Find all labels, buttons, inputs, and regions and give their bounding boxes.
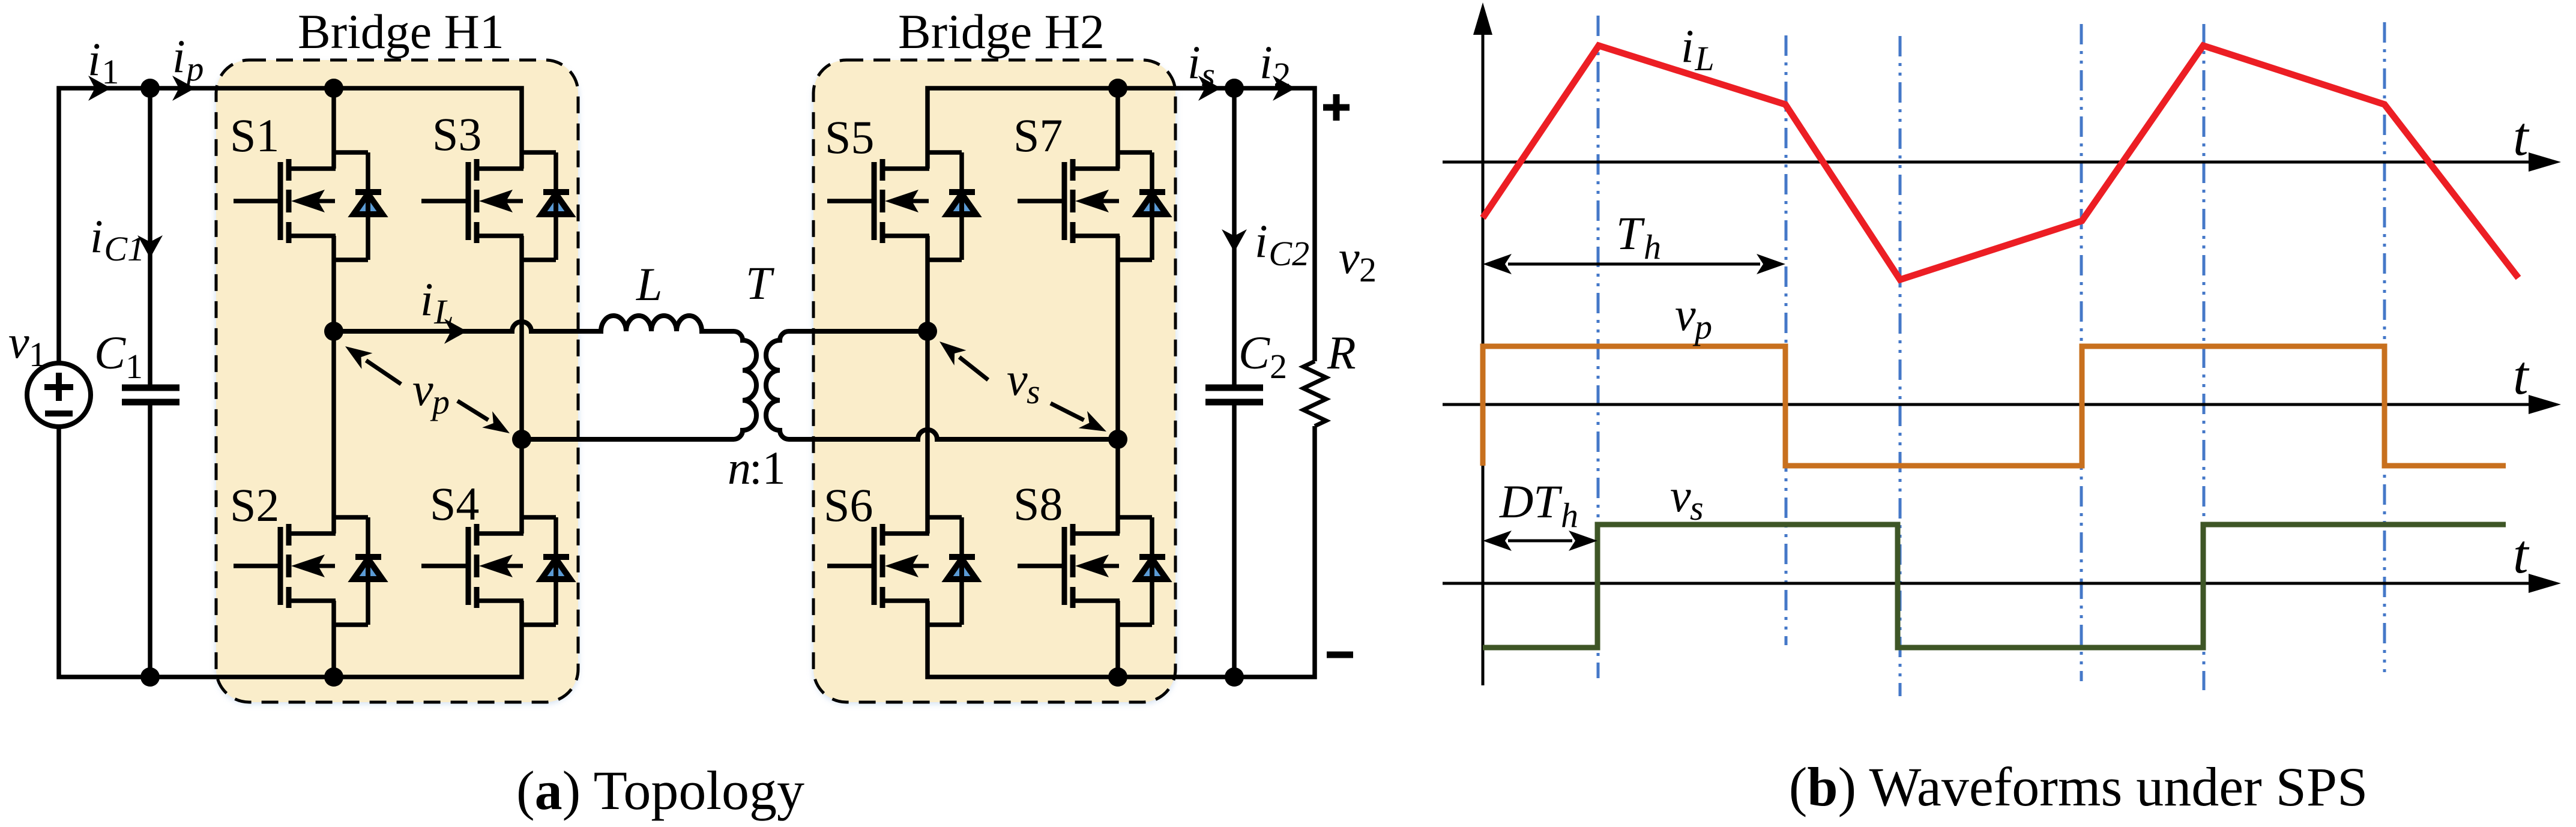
svg-text:S6: S6 — [824, 479, 873, 531]
svg-text:T: T — [746, 257, 774, 309]
svg-text:v: v — [1675, 288, 1696, 340]
svg-text:t: t — [2513, 523, 2530, 585]
svg-text:p: p — [430, 382, 450, 421]
svg-text:i: i — [90, 210, 103, 262]
svg-text:v: v — [412, 363, 433, 415]
svg-text:s: s — [1201, 55, 1215, 94]
svg-text:s: s — [1690, 489, 1704, 528]
svg-text:i: i — [88, 33, 101, 85]
svg-text:Bridge H2: Bridge H2 — [898, 4, 1105, 59]
svg-text:S3: S3 — [432, 108, 481, 160]
svg-text:L: L — [636, 258, 662, 310]
svg-text:i: i — [1255, 215, 1268, 267]
svg-text:S1: S1 — [230, 109, 279, 161]
svg-text:v: v — [1339, 231, 1360, 283]
svg-text:2: 2 — [1273, 55, 1291, 94]
svg-text:C: C — [94, 326, 126, 379]
svg-text:i: i — [1259, 36, 1273, 88]
svg-text:R: R — [1327, 326, 1356, 379]
svg-text:p: p — [184, 49, 204, 88]
svg-text:S5: S5 — [825, 111, 874, 163]
svg-text:s: s — [1027, 372, 1040, 411]
svg-text:Bridge H1: Bridge H1 — [298, 4, 504, 59]
svg-text:(b) Waveforms under SPS: (b) Waveforms under SPS — [1789, 756, 2368, 817]
svg-text:p: p — [1692, 307, 1712, 346]
svg-text:t: t — [2513, 344, 2530, 406]
svg-text:(a) Topology: (a) Topology — [516, 760, 804, 821]
svg-text:h: h — [1644, 227, 1661, 266]
svg-text:1: 1 — [101, 52, 119, 91]
svg-text:1: 1 — [125, 347, 143, 386]
svg-text:S7: S7 — [1013, 109, 1063, 161]
svg-text:v: v — [8, 316, 29, 368]
svg-text:v: v — [1007, 353, 1028, 405]
svg-text:2: 2 — [1270, 347, 1287, 386]
svg-text:h: h — [1561, 496, 1578, 535]
svg-text:C2: C2 — [1268, 234, 1309, 273]
svg-text:2: 2 — [1359, 250, 1377, 289]
svg-text:t: t — [2513, 106, 2530, 167]
svg-text:v: v — [1670, 469, 1691, 522]
svg-text:L: L — [433, 292, 453, 331]
svg-text:i: i — [1187, 36, 1201, 88]
svg-text:C1: C1 — [104, 229, 145, 268]
svg-text:L: L — [1694, 39, 1714, 78]
svg-text:i: i — [172, 30, 186, 82]
svg-text:i: i — [420, 273, 433, 325]
svg-text::1: :1 — [749, 442, 786, 494]
svg-text:DT: DT — [1499, 475, 1562, 528]
svg-text:i: i — [1681, 20, 1694, 72]
svg-text:1: 1 — [29, 335, 46, 374]
svg-text:C: C — [1238, 326, 1270, 379]
svg-text:S2: S2 — [230, 479, 279, 531]
svg-text:S8: S8 — [1013, 478, 1063, 530]
svg-text:T: T — [1616, 207, 1645, 259]
svg-text:n: n — [728, 442, 751, 494]
svg-text:S4: S4 — [430, 478, 479, 530]
